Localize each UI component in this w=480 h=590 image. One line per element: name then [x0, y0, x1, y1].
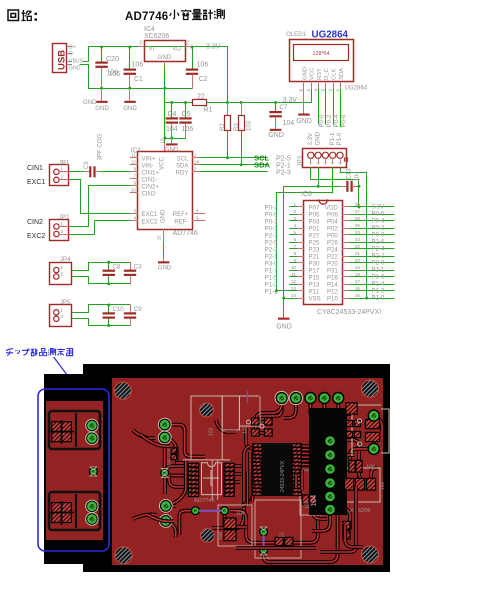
IC6 pin 8 row [297, 256, 304, 258]
IC6 pin 10 row [297, 270, 304, 272]
svg-text:REF+: REF+ [173, 211, 189, 218]
wire RDY row [200, 171, 267, 173]
svg-text:P2-5: P2-5 [276, 155, 291, 162]
svg-text:4: 4 [293, 223, 296, 228]
svg-text:GND: GND [158, 54, 172, 61]
svg-text:17: 17 [355, 279, 361, 284]
svg-text:CIN2-: CIN2- [142, 190, 158, 197]
svg-text:VBUS: VBUS [69, 58, 84, 64]
IC6 pin 13 row [297, 290, 304, 292]
silk extra [222, 396, 239, 430]
top pad row [276, 392, 288, 404]
IC6 pin 11 row [297, 276, 304, 278]
svg-text:P1-0: P1-0 [372, 295, 385, 302]
svg-text:22: 22 [197, 93, 205, 100]
ground under C7 [270, 129, 282, 131]
svg-text:GND: GND [95, 105, 109, 112]
resistor R3 [241, 103, 243, 116]
CY8C pads [252, 443, 262, 448]
trace bottom band [236, 486, 356, 552]
capacitor C8 [108, 262, 110, 269]
blue outline chip-measure zone [38, 389, 109, 551]
svg-text:P1-1: P1-1 [265, 288, 278, 295]
svg-text:P0-2: P0-2 [326, 114, 333, 127]
svg-text:P0-4: P0-4 [333, 114, 340, 127]
svg-text:JP4: JP4 [60, 256, 71, 263]
IC6 pin 28 row [343, 206, 350, 208]
svg-text:GND: GND [69, 65, 81, 71]
wire P0-4 from CLK [333, 90, 335, 125]
svg-text:6: 6 [299, 89, 304, 92]
svg-text:23: 23 [355, 237, 361, 242]
svg-text:C7: C7 [280, 104, 288, 111]
wire P0-6 from SDA [340, 90, 342, 127]
svg-text:P2-5: P2-5 [265, 239, 278, 246]
svg-text:C3: C3 [134, 264, 142, 271]
cap 104 pads bottom [223, 517, 236, 529]
svg-text:XC6206: XC6206 [144, 33, 169, 40]
svg-text:1: 1 [335, 89, 340, 92]
svg-text:9: 9 [133, 181, 136, 186]
svg-text:P21: P21 [309, 253, 320, 260]
svg-text:CIN1+: CIN1+ [142, 169, 160, 176]
mount hole mid bottom [201, 528, 215, 542]
svg-text:103: 103 [243, 425, 249, 434]
svg-text:128*64: 128*64 [312, 51, 329, 57]
svg-text:6: 6 [196, 216, 199, 221]
capacitor C10 [108, 305, 110, 312]
svg-text:P3-0: P3-0 [265, 260, 278, 267]
wire VBUS to 5V rail [83, 61, 88, 63]
wire JP5 top [72, 312, 89, 314]
svg-text:1: 1 [61, 307, 64, 312]
svg-text:P1-1: P1-1 [329, 132, 336, 145]
IC6 pin 17 row [343, 284, 350, 286]
IC6 pin 16 row [343, 290, 350, 292]
IC6 pin 9 row [297, 262, 304, 264]
svg-text:EXC2: EXC2 [142, 218, 159, 225]
regulator IC4 XC6206 [145, 41, 186, 62]
svg-text:SDA: SDA [176, 162, 189, 169]
svg-text:104: 104 [283, 120, 295, 127]
svg-text:XC6206: XC6206 [350, 508, 371, 514]
svg-text:P17: P17 [309, 267, 320, 274]
svg-text:C20: C20 [106, 56, 119, 63]
JP1 pcb pads [159, 418, 171, 430]
IC IC6 CY8C24533 [304, 201, 343, 305]
svg-text:P14: P14 [327, 281, 338, 288]
svg-text:SDA: SDA [254, 160, 271, 169]
svg-text:UG2864: UG2864 [345, 85, 368, 92]
AD7746 pads [188, 463, 199, 468]
svg-text:P0-7: P0-7 [265, 204, 278, 211]
pin 13 IC1 stub [164, 144, 166, 152]
svg-text:JP2: JP2 [59, 214, 70, 221]
svg-text:106: 106 [182, 126, 194, 133]
IC6 pin 22 row [343, 248, 350, 250]
svg-text:USB: USB [57, 50, 68, 70]
svg-text:P2-3: P2-3 [265, 246, 278, 253]
red marks JP3 [345, 158, 348, 161]
svg-text:106: 106 [366, 465, 375, 471]
junction VDD 3.3V [358, 206, 361, 209]
svg-text:14: 14 [291, 293, 297, 298]
OLED connector body [309, 408, 347, 515]
svg-text:GND: GND [314, 131, 321, 145]
svg-text:2: 2 [194, 167, 197, 172]
svg-text:P1-5: P1-5 [265, 274, 278, 281]
capacitor C4 [171, 103, 173, 118]
svg-text:P2-1: P2-1 [276, 162, 291, 169]
svg-text:CLK: CLK [332, 68, 338, 80]
trace from JP1 down [165, 438, 185, 476]
svg-text:R3: R3 [233, 123, 240, 131]
left panel via [89, 467, 98, 476]
svg-text:P01: P01 [309, 225, 320, 232]
connector JP4 [50, 263, 72, 285]
svg-text:12: 12 [291, 279, 297, 284]
wire JP2-2 to EXC2 [70, 234, 95, 236]
trace left arcs [140, 434, 170, 446]
svg-text:P26: P26 [327, 239, 338, 246]
PCB left panel board [46, 401, 103, 540]
svg-text:VCC: VCC [310, 67, 316, 80]
capacitor C2 [192, 47, 194, 69]
svg-text:103: 103 [209, 427, 215, 436]
svg-text:P20: P20 [327, 260, 338, 267]
svg-text:P06: P06 [327, 211, 338, 218]
svg-text:AD7746: AD7746 [125, 11, 168, 23]
junction VSS GND [282, 297, 285, 300]
svg-text:P0-0: P0-0 [319, 114, 326, 127]
svg-text:8: 8 [293, 251, 296, 256]
IC6 pin 21 row [343, 256, 350, 258]
trace usb xc area [350, 416, 374, 471]
svg-text:D-: D- [69, 51, 75, 57]
svg-text:P0-2: P0-2 [372, 225, 385, 232]
mount hole mid top [200, 403, 214, 417]
svg-text:P0-1: P0-1 [265, 225, 278, 232]
svg-text:P2-4: P2-4 [372, 246, 385, 253]
svg-text:GND: GND [302, 67, 308, 80]
test pads purple pair2 [259, 527, 268, 536]
mount hole TR [361, 380, 378, 397]
svg-text:R2: R2 [219, 123, 226, 131]
svg-text:P13: P13 [309, 281, 320, 288]
svg-text:4: 4 [313, 89, 318, 92]
svg-text:EXC1: EXC1 [142, 211, 159, 218]
svg-text:1: 1 [61, 265, 64, 270]
silkscreen xc outline [338, 468, 380, 502]
connector JP2 [50, 220, 69, 241]
wire IC4 GND down [164, 61, 166, 66]
left panel footprint 1 [49, 411, 100, 449]
svg-text:CIN2: CIN2 [27, 219, 43, 226]
svg-text:P0-0: P0-0 [372, 232, 385, 239]
trace xc6206 [335, 468, 377, 484]
svg-text:C1: C1 [134, 76, 143, 83]
svg-text:3.3V: 3.3V [206, 44, 221, 51]
wire JP5 bottom [72, 318, 89, 320]
svg-text:10: 10 [131, 188, 137, 193]
svg-text:C8: C8 [113, 264, 121, 271]
svg-text:P31: P31 [327, 267, 338, 274]
trace ssop left col [212, 446, 250, 528]
svg-text:D+: D+ [69, 44, 76, 50]
svg-text:P2-6: P2-6 [372, 239, 385, 246]
svg-text:104: 104 [236, 511, 245, 517]
svg-text:VIN-: VIN- [142, 162, 154, 169]
svg-text:C9: C9 [134, 306, 142, 313]
capacitor C20 [101, 47, 103, 62]
svg-text:EXC2: EXC2 [27, 233, 45, 240]
wire JP3-5 P1-0 [340, 168, 342, 173]
ground under IC1 pin15 [163, 229, 165, 244]
svg-text:GND: GND [276, 324, 292, 331]
pins REF+ REF- [193, 213, 206, 215]
svg-text:P24: P24 [327, 246, 338, 253]
svg-text:EXC1: EXC1 [27, 179, 45, 186]
svg-text:GND: GND [160, 209, 167, 223]
capacitor C6 [70, 171, 86, 173]
resistor R1 [193, 100, 207, 106]
capacitor C1 [129, 47, 131, 69]
svg-text:P0-5: P0-5 [265, 211, 278, 218]
svg-text:P22: P22 [327, 253, 338, 260]
IC6 pin 24 row [343, 234, 350, 236]
svg-text:3: 3 [139, 41, 142, 47]
IC6 pin 14 row [297, 298, 304, 300]
usb pads [365, 419, 380, 429]
wire 3.3V drop from IC4 [227, 47, 229, 103]
svg-text:P27: P27 [309, 232, 320, 239]
svg-text:25: 25 [355, 223, 361, 228]
svg-text:4: 4 [133, 216, 136, 221]
trace bundle top left [165, 425, 205, 457]
CY8C body [263, 443, 293, 496]
wire P0-2 from D_C [325, 90, 327, 125]
silkscreen bottom outlines [218, 505, 252, 546]
wire JP3-4 P1-1 [332, 168, 334, 194]
svg-text:RST: RST [317, 68, 323, 80]
wire 5V rail [102, 46, 228, 48]
svg-text:P25: P25 [309, 239, 320, 246]
trace mid verticals [248, 470, 253, 506]
svg-text:REF-: REF- [174, 218, 188, 225]
cap 106 pads [348, 460, 355, 473]
connector JP3 [303, 149, 347, 168]
svg-text:VI: VI [149, 46, 155, 53]
wire USB GND [80, 64, 88, 66]
svg-text:AD7746: AD7746 [173, 230, 198, 237]
IC6 pin 4 row [297, 228, 304, 230]
wire JP3-1 3.3V [310, 168, 312, 180]
svg-text:2: 2 [61, 272, 64, 277]
svg-text:104: 104 [311, 495, 318, 507]
svg-text:P2-1: P2-1 [265, 253, 278, 260]
cap 104 pads mid [302, 494, 310, 504]
IC6 pin 15 row [343, 298, 350, 300]
svg-text:3.3V: 3.3V [307, 132, 314, 145]
IC6 pin 1 row [297, 206, 304, 208]
svg-text:CIN2+: CIN2+ [142, 183, 160, 190]
pins SCL SDA RDY [193, 157, 201, 159]
trace left bottom [166, 506, 176, 537]
svg-text:2: 2 [61, 175, 64, 180]
trace bottom long [230, 503, 318, 543]
ground under IC6 [283, 298, 285, 317]
IC IC1 AD7746 [138, 152, 193, 230]
svg-text:2: 2 [328, 89, 333, 92]
svg-text:104: 104 [166, 126, 178, 133]
svg-text:1: 1 [61, 221, 64, 226]
svg-text:103: 103 [246, 120, 253, 131]
pins EXC1 EXC2 [130, 213, 137, 215]
wire JP4 bottom [72, 276, 89, 278]
PCB black base [83, 364, 390, 572]
svg-text:12: 12 [131, 160, 137, 165]
svg-text:C2: C2 [199, 76, 208, 83]
blue wire stub [247, 391, 249, 403]
svg-text:104: 104 [305, 500, 311, 509]
OLED column pads [324, 435, 336, 447]
trace R2R3 to ssop [246, 422, 267, 448]
svg-text:7: 7 [133, 174, 136, 179]
svg-text:1: 1 [61, 167, 64, 172]
via small [160, 468, 169, 477]
capacitor C7 [275, 103, 277, 112]
IC6 pin 5 row [297, 234, 304, 236]
svg-text:CY8C24533-24PVXI: CY8C24533-24PVXI [317, 309, 381, 316]
R 22 pads [275, 537, 284, 546]
wire 3.3V rail [207, 102, 311, 104]
ground under C1 [128, 87, 131, 90]
pin 3 IC4 [138, 46, 145, 48]
IC6 pin 27 row [343, 214, 350, 216]
svg-text:2: 2 [61, 314, 64, 319]
svg-text:CIN1-: CIN1- [142, 176, 158, 183]
connector JP1 [50, 165, 69, 186]
IC6 pin 12 row [297, 284, 304, 286]
wire VDD rail y102 [165, 102, 193, 104]
svg-text:3PF COG: 3PF COG [97, 133, 104, 160]
svg-text:3.3V: 3.3V [372, 204, 385, 211]
svg-text:P2-0: P2-0 [372, 260, 385, 267]
svg-text:P16: P16 [327, 274, 338, 281]
wire JP1-2 to EXC1 [70, 179, 82, 181]
svg-text:P04: P04 [327, 218, 338, 225]
svg-text:CIN1: CIN1 [27, 165, 43, 172]
R2R3 pcb pads [251, 417, 260, 425]
ground OLED [303, 90, 305, 114]
capacitor C13 [342, 186, 347, 188]
svg-text:24533-24PVX: 24533-24PVX [280, 460, 286, 492]
IC6 pin 25 row [343, 228, 350, 230]
svg-text:19: 19 [355, 265, 361, 270]
usb mount pads [368, 409, 380, 421]
xc6206 pads [344, 478, 354, 491]
svg-text:R1: R1 [204, 107, 213, 114]
svg-text:P3-1: P3-1 [372, 267, 385, 274]
svg-text:GND: GND [123, 105, 137, 112]
svg-text:JP3: JP3 [297, 155, 304, 166]
svg-text:1: 1 [194, 153, 197, 158]
silkscreen usb outline [352, 405, 389, 456]
svg-text:D_C: D_C [324, 67, 330, 80]
svg-text:3PF COG: 3PF COG [167, 446, 172, 466]
cap pads right of xc [345, 402, 357, 414]
svg-text:P0-6: P0-6 [372, 211, 385, 218]
IC6 pin 23 row [343, 242, 350, 244]
svg-text:VSS: VSS [309, 295, 321, 302]
svg-text:3.3V: 3.3V [283, 97, 298, 104]
svg-text:P10: P10 [327, 295, 338, 302]
PCB main board [112, 378, 383, 565]
traces top pads down [260, 398, 282, 416]
svg-text:GND: GND [158, 265, 172, 272]
svg-text:VIN+: VIN+ [142, 155, 156, 162]
svg-text:2: 2 [293, 209, 296, 214]
svg-text:P2-3: P2-3 [276, 169, 291, 176]
svg-text:JP5: JP5 [60, 299, 71, 306]
svg-text:3: 3 [321, 89, 326, 92]
title kairo [8, 10, 19, 21]
JP2 pcb pads [160, 500, 172, 512]
capacitor C3 [130, 262, 132, 269]
svg-text:106: 106 [218, 532, 224, 540]
svg-text:P1-0: P1-0 [336, 132, 343, 145]
svg-text:10: 10 [291, 265, 297, 270]
IC6 pin 3 row [297, 220, 304, 222]
trace oled band right [347, 440, 359, 476]
svg-text:21: 21 [355, 251, 361, 256]
svg-text:2: 2 [61, 229, 64, 234]
junction P1-0 [365, 297, 368, 300]
svg-text:P12: P12 [327, 288, 338, 295]
IC6 pin 20 row [343, 262, 350, 264]
IC6 pin 19 row [343, 270, 350, 272]
ground above IC1 [171, 138, 173, 143]
svg-text:5: 5 [306, 89, 311, 92]
mount hole BR [361, 546, 378, 563]
svg-text:SCL: SCL [177, 155, 189, 162]
capacitor C9 [130, 305, 132, 312]
extra traces right [312, 515, 330, 531]
silkscreen ad7746 outline [202, 463, 222, 495]
svg-text:5: 5 [196, 208, 199, 213]
svg-text:15: 15 [156, 235, 161, 241]
svg-text:P2-2: P2-2 [372, 253, 385, 260]
svg-text:P0-3: P0-3 [265, 218, 278, 225]
svg-text:P11: P11 [309, 288, 320, 295]
svg-text:OLED1: OLED1 [286, 31, 307, 38]
svg-text:P23: P23 [309, 246, 320, 253]
svg-text:VO: VO [172, 46, 181, 53]
leader line [54, 358, 78, 390]
svg-text:P00: P00 [327, 232, 338, 239]
svg-text:11: 11 [131, 153, 136, 158]
svg-text:P15: P15 [309, 274, 320, 281]
svg-text:VCC: VCC [159, 157, 166, 170]
OLED pins [303, 82, 305, 90]
silkscreen top rects [183, 396, 259, 460]
wire JP2-1 to CIN2+ [70, 226, 89, 228]
svg-text:P30: P30 [309, 260, 320, 267]
svg-text:P02: P02 [327, 225, 338, 232]
wire C4 C5 bottoms [165, 138, 186, 140]
cap pads bottom small [342, 521, 350, 530]
svg-text:P03: P03 [309, 218, 320, 225]
